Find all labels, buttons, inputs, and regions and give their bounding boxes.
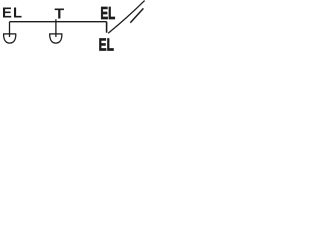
- wire: rising diagonal to upper right: [108, 1, 144, 34]
- svg-text:EL: EL: [99, 35, 114, 53]
- svg-text:T: T: [55, 6, 65, 23]
- wire: horizontal bus: [10, 21, 107, 23]
- svg-text:EL: EL: [2, 6, 23, 22]
- lamp outlet symbol (middle cup): [49, 34, 62, 43]
- wire: middle drop: [55, 19, 57, 37]
- slash mark on diagonal: [130, 8, 143, 22]
- svg-text:EL: EL: [100, 5, 115, 24]
- wire: left drop: [9, 22, 11, 37]
- lamp outlet symbol (left cup): [3, 34, 16, 43]
- wire: right end turning down: [106, 22, 108, 33]
